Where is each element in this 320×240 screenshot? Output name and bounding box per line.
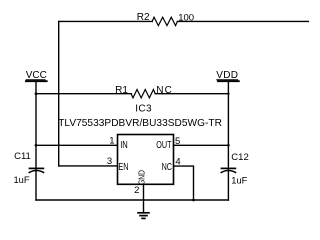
svg-text:1uF: 1uF [231, 175, 247, 185]
svg-text:OUT: OUT [156, 139, 172, 150]
wire NC pin to drop [174, 166, 194, 200]
ground [137, 213, 150, 219]
wire R1 net: VCC junction to R1 [36, 93, 131, 95]
svg-text:IC3: IC3 [135, 104, 152, 115]
junction at NC drop / bottom wire [192, 199, 195, 202]
wire VCC stem down through C11 to bottom wire [35, 81, 37, 200]
wire top net from corner to R2 [59, 20, 153, 22]
wire bottom net [36, 199, 228, 201]
power symbol VCC bar [26, 79, 46, 81]
junction at VCC/IN [35, 144, 38, 147]
svg-text:EN: EN [118, 161, 128, 172]
svg-text:VCC: VCC [26, 70, 47, 81]
wire OUT pin net [174, 144, 229, 146]
wire EN horizontal to IC [59, 165, 118, 167]
svg-text:R2: R2 [137, 12, 150, 23]
svg-text:NC: NC [156, 85, 173, 96]
wire R1 net: R1 to VDD stem [155, 93, 228, 95]
svg-text:3: 3 [107, 156, 112, 167]
svg-text:1uF: 1uF [14, 175, 30, 185]
wire top net from R2 to right edge [177, 20, 309, 22]
power symbol VDD bar [216, 79, 238, 81]
resistor R2 [152, 17, 177, 25]
resistor R1 [131, 89, 155, 97]
svg-text:VDD: VDD [216, 70, 238, 81]
svg-text:IN: IN [120, 139, 128, 150]
svg-text:C12: C12 [231, 152, 248, 163]
svg-text:2: 2 [134, 185, 139, 196]
svg-text:R1: R1 [115, 85, 128, 96]
svg-text:4: 4 [175, 156, 180, 167]
wire GND pin stem [143, 184, 145, 213]
svg-text:NC: NC [162, 161, 172, 172]
junction at VDD/R1 [227, 93, 229, 95]
svg-text:C11: C11 [14, 151, 31, 162]
junction at VCC/R1 [35, 92, 38, 95]
svg-text:100: 100 [178, 13, 194, 24]
svg-text:5: 5 [175, 136, 180, 147]
wire VDD stem down through C12 to bottom wire [227, 81, 229, 200]
svg-text:1: 1 [109, 136, 114, 147]
capacitor C12 plates [221, 168, 237, 172]
wire IN pin net [36, 144, 118, 146]
capacitor C11 plates [29, 168, 45, 172]
regulator IC3 body box [118, 135, 174, 185]
svg-text:TLV75533PDBVR/BU33SD5WG-TR: TLV75533PDBVR/BU33SD5WG-TR [58, 118, 222, 129]
svg-text:GND: GND [136, 170, 146, 185]
junction at VDD/OUT [227, 144, 230, 147]
wire vertical from top corner down to EN corner [58, 21, 60, 166]
